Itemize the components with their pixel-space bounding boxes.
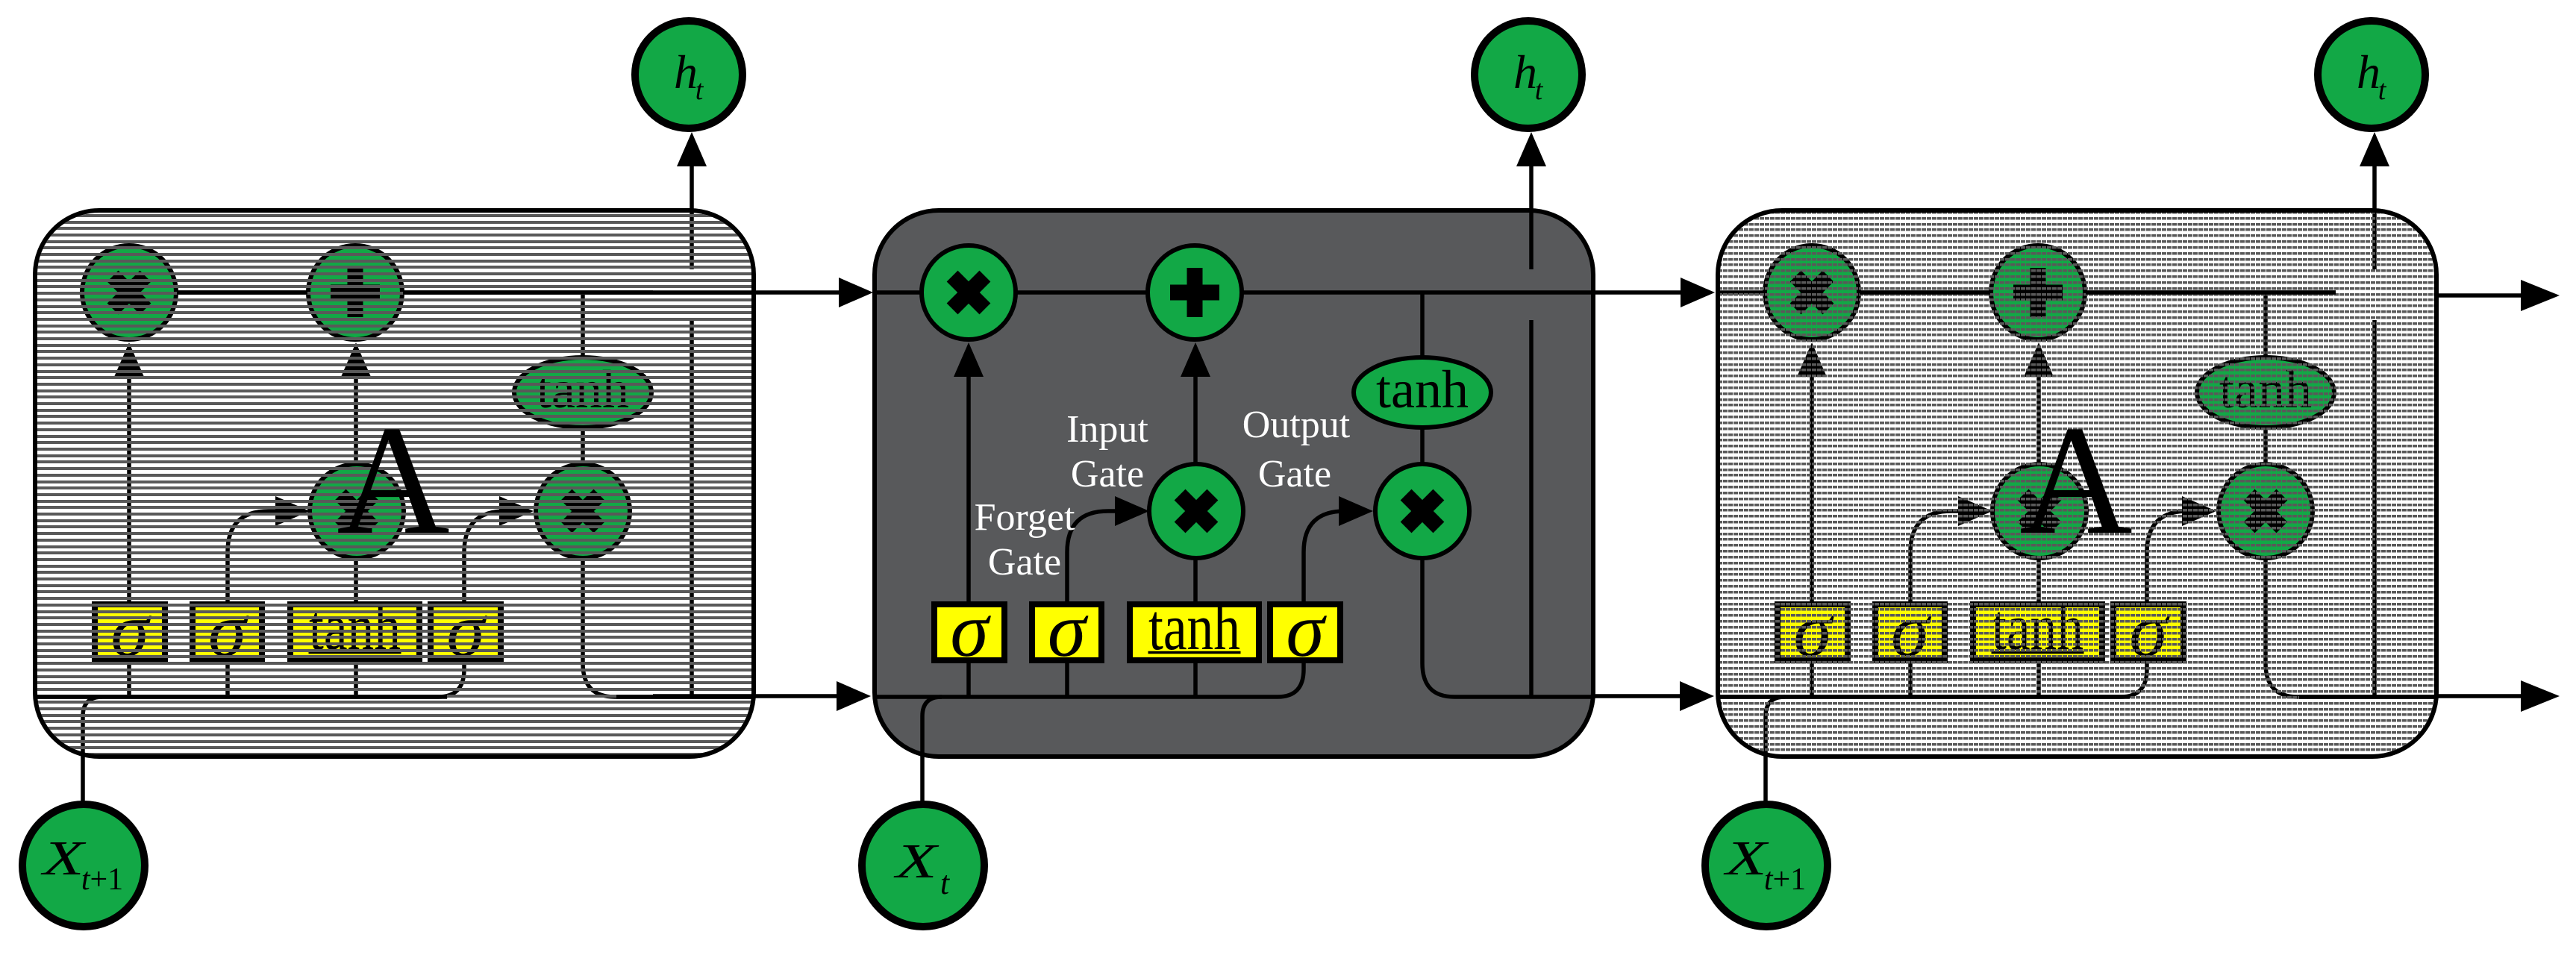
wire: hidden-state vertical inside cell (right) [2372,210,2377,269]
tanh ellipse (mid) [1354,357,1491,428]
wire: multiplier to adder with arrow (mid) [1193,373,1198,464]
yellow sigma2 box (mid) [1032,587,1101,673]
output-gate multiplier circle (left) [536,464,630,558]
arrowhead into output-gate multiplier (mid) [1339,496,1373,526]
svg-text:A: A [337,394,450,567]
multiplier (forget) circle (left) [82,245,176,339]
wire: cell-state line over hatch (right) [1860,290,1990,295]
wire: hidden-state arrow out of right cell [2436,694,2522,698]
yellow tanh-box box (right) [1973,592,2102,664]
wire: bottom input line (left) [35,511,505,697]
yellow sigma2 box (right) [1875,587,1945,673]
wire: output line over hatch (left) [616,695,754,699]
svg-text:h: h [2357,46,2380,98]
svg-text:Gate: Gate [988,541,1061,583]
input-gate multiplier circle (right) [1992,464,2086,558]
wire: X stem below cell (left) [81,757,85,802]
X input circle (right) [1705,804,1828,927]
output-gate multiplier circle (right) [2219,464,2313,558]
wire: tanh-box stem up to multiplier (mid) [1193,558,1198,604]
wire: tanh-box stem up to multiplier (left) [354,558,358,604]
wire: tanh ellipse to output multiplier (mid) [1420,427,1425,467]
LSTM cell body (left) [35,210,754,757]
h_t output circle (left) [635,21,743,128]
label: Input Gate [1066,408,1148,495]
svg-text:σ: σ [2129,587,2170,673]
yellow sigma1 box (left) [95,587,165,673]
arrowhead into output-gate multiplier (left) [499,496,534,526]
svg-text:t+1: t+1 [1764,862,1806,897]
svg-text:t: t [695,75,704,106]
wire: cell-state line over hatch (left) [177,290,307,295]
h_t output circle (right) [2318,21,2425,128]
yellow tanh-box box (left) [290,592,419,664]
wire: tanh ellipse to output multiplier (left) [581,427,585,467]
svg-text:t+1: t+1 [81,862,123,897]
cell border (mid) [875,210,1593,757]
wire: X stem below cell (right) [1763,757,1768,802]
svg-text:t: t [1535,75,1544,106]
wire: forget-gate vertical with arrow into top multiplier (right) [1810,376,1814,604]
X input circle (mid) [862,804,984,927]
wire: tanh-box stem down (right) [2036,660,2041,697]
svg-text:Forget: Forget [975,496,1075,539]
svg-text:tanh: tanh [1376,360,1469,419]
wire: input-gate S-curve with arrow (right) [1910,511,1961,697]
wire: cell-state arrow left cell to middle cell [653,290,843,295]
yellow tanh-box box (mid) [1130,592,1259,664]
wire: input line over hatch (left) [35,695,447,699]
yellow sigma1 box (right) [1778,587,1848,673]
wire: sigma1 stem down (mid) [966,660,971,697]
wire: hidden-state vertical inside cell (mid) [1529,210,1534,269]
svg-text:σ: σ [950,587,991,673]
cell border (left) [35,210,754,757]
arrowhead into output-gate multiplier (right) [2182,496,2216,526]
wire: multiplier to adder with arrow (right) [2036,373,2041,464]
wire: hidden-state arrow left cell to middle cell [653,694,841,698]
svg-text:σ: σ [1286,587,1327,673]
LSTM cell body (right) [1718,210,2436,757]
hatch overlay (right) [1718,213,2436,756]
wire: tanh-box stem down (mid) [1193,660,1198,697]
wire: multiplier to adder with arrow (left) [354,373,358,464]
yellow sigma2 box (left) [193,587,262,673]
svg-text:t: t [2378,75,2387,106]
wire: tanh ellipse to top line (mid) [1420,292,1425,360]
wire: h stem above cell with arrow (left) [690,164,694,210]
yellow sigma3 box (mid) [1270,587,1340,673]
svg-text:σ: σ [1793,587,1834,673]
wire: h stem above cell with arrow (right) [2372,164,2377,210]
multiplier (forget) circle (right) [1765,245,1859,339]
wire: cell-state top line (right) [1718,290,2336,295]
h_t output circle (mid) [1475,21,1582,128]
tanh ellipse (left) [514,357,651,428]
wire: forget-gate vertical with arrow into top multiplier (mid) [966,376,971,604]
yellow sigma3 box (right) [2113,587,2183,673]
wire: cell-state top line (left) [83,290,653,295]
wire: tanh ellipse to top line (left) [581,292,585,360]
svg-text:Gate: Gate [1258,453,1331,495]
wire: tanh ellipse to top line (right) [2263,292,2268,360]
input-gate multiplier circle (left) [310,464,404,558]
yellow sigma3 box (left) [431,587,501,673]
wire: h stem above cell with arrow (mid) [1529,164,1534,210]
hatch overlay (left) [35,214,754,756]
wire: sigma1 stem down (left) [127,660,131,697]
svg-text:t: t [940,865,951,901]
svg-text:A: A [2019,394,2133,567]
adder circle (mid) [1148,245,1242,339]
wire: input-gate S-curve with arrow (left) [228,511,278,697]
multiplier (forget) circle (mid) [922,245,1016,339]
wire: hidden-state arrow middle cell to right cell [1594,694,1684,698]
wire: X stem below cell (mid) [920,757,925,802]
label: Output Gate [1242,404,1351,495]
svg-text:X: X [40,831,87,886]
X input circle (left) [22,804,145,927]
label: Forget Gate [975,496,1075,583]
adder circle (right) [1991,245,2085,339]
yellow sigma1 box (mid) [934,587,1004,673]
wire: bottom input line (mid) [875,511,1345,697]
cell border (right) [1718,210,2436,757]
adder circle (left) [308,245,402,339]
output-gate multiplier circle (mid) [1375,464,1469,558]
wire: bottom input line (right) [1718,511,2188,697]
tanh ellipse (right) [2197,357,2334,428]
LSTM cell body (mid) [875,210,1593,757]
wire: input-gate S-curve with arrow (mid) [1067,511,1118,697]
wire: X input stem inside cell (left) [83,697,102,757]
wire: output multiplier down to output line (left) [583,558,754,697]
wire: output multiplier down to output line (mid) [1422,558,1593,697]
wire: tanh ellipse to output multiplier (right) [2263,427,2268,467]
wire: cell-state arrow middle cell to right cell [1492,290,1686,295]
svg-text:h: h [1513,46,1537,98]
wire: X input stem inside cell (right) [1766,697,1785,757]
svg-text:σ: σ [1891,587,1932,673]
wire: output multiplier down to output line (right) [2266,558,2436,697]
svg-text:h: h [674,46,698,98]
wire: sigma1 stem down (right) [1810,660,1814,697]
wire: tanh-box stem up to multiplier (right) [2036,558,2041,604]
svg-text:σ: σ [1048,587,1089,673]
svg-text:Gate: Gate [1071,453,1144,495]
wire: forget-gate vertical with arrow into top multiplier (left) [127,376,131,604]
svg-text:Input: Input [1066,408,1148,451]
input-gate multiplier circle (mid) [1149,464,1243,558]
wire: cell-state arrow out of right cell [2436,293,2522,298]
wire: input line over hatch (right) [1718,695,2130,699]
wire: hidden-state vertical inside cell (left) [690,210,694,269]
svg-text:X: X [1722,831,1769,886]
wire: cell-state top line (mid) [875,290,1492,295]
svg-text:Output: Output [1242,404,1351,446]
wire: X input stem inside cell (mid) [922,697,942,757]
wire: tanh-box stem down (left) [354,660,358,697]
wire: output line over hatch (right) [2299,695,2436,699]
svg-text:X: X [892,834,940,889]
